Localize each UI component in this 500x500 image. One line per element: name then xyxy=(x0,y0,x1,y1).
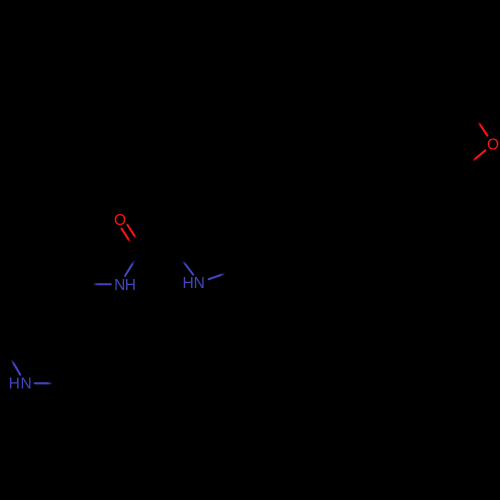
svg-text:N: N xyxy=(194,275,205,292)
bond N4-C piperidine N to ring carbon (up-left) xyxy=(6,351,20,375)
svg-text:H: H xyxy=(183,275,194,292)
bond N3-C5 pyrrole N to ring carbon (right) xyxy=(209,270,235,279)
bond C=O double bond (carbonyl, amide) xyxy=(122,225,144,253)
bond N4-C piperidine N to ring carbon (right) xyxy=(35,382,64,384)
bond N2-CH2 amide N to methylene xyxy=(82,283,111,285)
bond N2-C(=O) amide N to carbonyl carbon xyxy=(125,251,140,275)
svg-text:H: H xyxy=(125,277,136,294)
bond N3-C2 pyrrole N to ring carbon (up-left) xyxy=(176,253,193,275)
bond O5-C furan O to ring carbon (up-left) xyxy=(472,112,488,135)
bond O5-C furan O to ring carbon (down-left) xyxy=(464,150,486,168)
svg-text:H: H xyxy=(9,376,20,393)
svg-text:N: N xyxy=(20,376,31,393)
atom N4 piperidine HN label xyxy=(9,376,32,393)
atom N2 amide NH label xyxy=(114,277,136,294)
atom N3 pyrrole HN label xyxy=(183,275,205,292)
svg-text:N: N xyxy=(114,277,125,294)
svg-text:O: O xyxy=(114,212,126,229)
svg-text:O: O xyxy=(487,137,499,154)
